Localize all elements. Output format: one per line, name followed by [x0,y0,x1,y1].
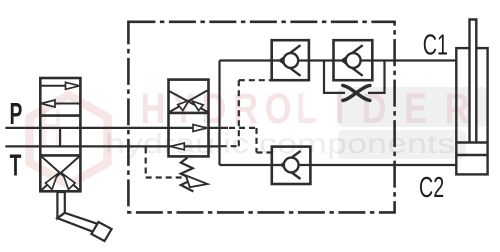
V2 spring [181,158,194,192]
svg-text:C1: C1 [423,30,448,62]
V2 arrow right [193,125,207,132]
throttle restrictor [343,85,370,100]
svg-text:P: P [9,98,22,132]
directional valve V1 body [40,78,80,191]
V2 pilot line to spring [146,148,208,188]
V1 mid section connector [59,128,61,146]
check valve CV2 [334,40,373,80]
cylinder piston [456,143,487,156]
V1 bottom section crossed arrows [42,157,80,191]
V1 top section arrow left [41,100,80,107]
bypass loop with throttle [324,61,385,93]
wire P extension solid [209,127,229,129]
boundary dash-dot enclosure [128,22,394,213]
check valve CV3 [272,147,311,184]
wire vertical trunk [218,61,220,166]
V1 top section arrow right [41,82,80,89]
svg-text:hydraulic components: hydraulic components [105,128,455,159]
wire bottom main line [220,164,457,166]
pilot line B dashed [229,128,271,153]
wire P line [5,127,207,129]
svg-text:T: T [10,149,22,183]
pilot line A dashed [221,80,271,146]
check valve CV1 [272,40,309,80]
V2 crossed arrows [170,90,208,112]
wire top main line [220,59,457,61]
watermark hexagon logo [30,95,108,185]
cylinder body [456,48,487,174]
watermark badge gray [338,87,488,127]
svg-text:C2: C2 [419,173,444,205]
V1 manual lever [57,192,111,241]
wire T line [5,145,219,147]
cylinder rod [470,20,477,143]
pilot valve V2 body [169,80,209,157]
V2 arrow left [170,143,184,150]
